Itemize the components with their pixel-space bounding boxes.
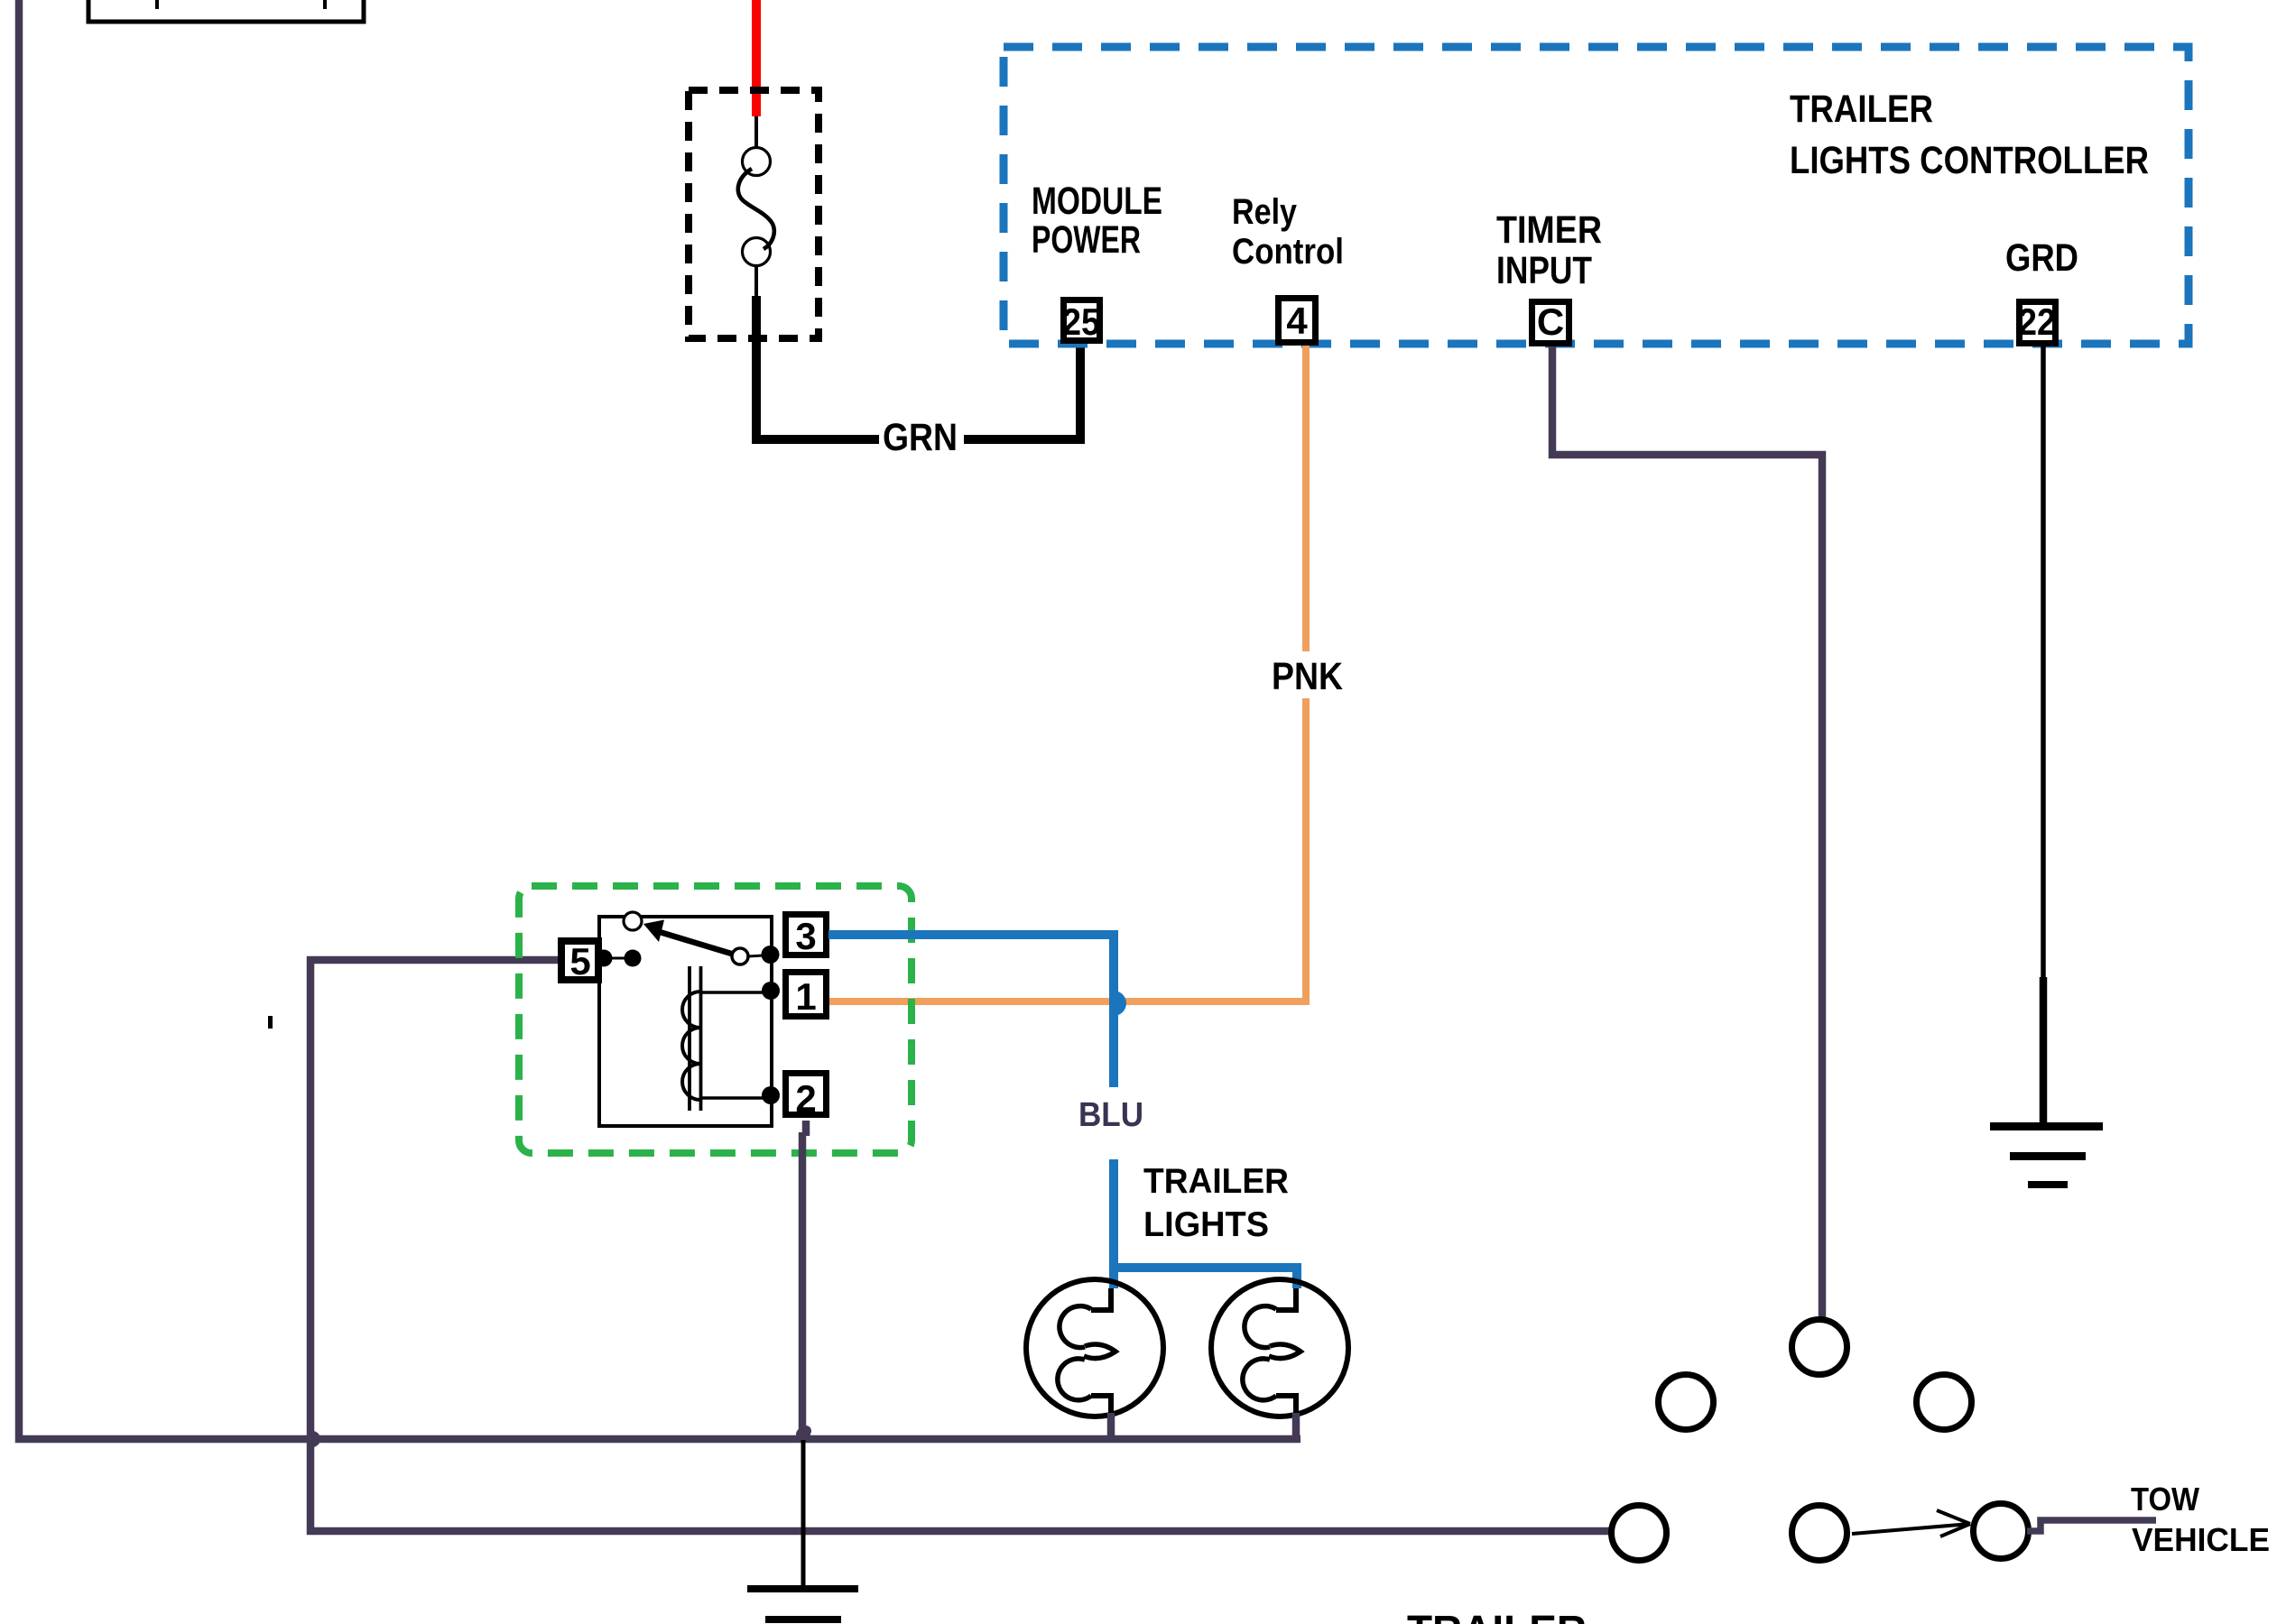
wire: purple from relay pin 5 left, down and along bottom to trailer connector pin xyxy=(310,960,1612,1531)
controller pin 25 xyxy=(1062,300,1100,344)
svg-text:1: 1 xyxy=(795,975,816,1018)
svg-text:LIGHTS: LIGHTS xyxy=(1143,1205,1269,1244)
svg-text:Control: Control xyxy=(1232,232,1344,272)
wire: purple to tow vehicle xyxy=(2027,1520,2156,1531)
svg-text:5: 5 xyxy=(569,940,590,983)
fuse box (black dashed) xyxy=(689,90,819,338)
wire: BLU blue branch to bulb 2 xyxy=(1114,1268,1297,1288)
svg-text:TIMER: TIMER xyxy=(1496,208,1602,252)
svg-text:C: C xyxy=(1537,300,1564,343)
junction: pin 2 wire to ground bus dot xyxy=(796,1426,811,1442)
ground symbol left (cut off at page bottom) xyxy=(747,1585,858,1623)
battery box (top-left, cut off at page top) xyxy=(88,0,364,22)
wire: purple from relay pin 2 down to ground node xyxy=(802,1121,806,1439)
relay inner case xyxy=(599,917,772,1126)
svg-text:TRAILER: TRAILER xyxy=(1143,1162,1289,1201)
svg-text:4: 4 xyxy=(1286,300,1308,342)
svg-text:22: 22 xyxy=(2018,300,2056,343)
trailer connector pins (6 circles) xyxy=(1612,1320,2029,1561)
wire: purple stub bulb 2 to ground bus xyxy=(1292,1413,1300,1443)
svg-text:POWER: POWER xyxy=(1032,218,1141,262)
trailer lights controller box (blue dashed) xyxy=(1004,47,2189,344)
svg-text:TOW: TOW xyxy=(2131,1481,2199,1518)
stray apostrophe mark xyxy=(268,1016,273,1029)
svg-text:Rely: Rely xyxy=(1232,192,1298,232)
label PNK xyxy=(1263,651,1350,698)
relay pin 2 xyxy=(786,1074,827,1121)
controller pin 22 xyxy=(2018,300,2056,344)
arrow: connector mating direction xyxy=(1852,1510,1970,1536)
fuse element (circuit breaker symbol) xyxy=(738,116,774,299)
relay box (green dashed) xyxy=(519,886,912,1153)
svg-text:TRAILER: TRAILER xyxy=(1790,88,1933,131)
label MODULE POWER xyxy=(1032,180,1162,262)
svg-text:GRN: GRN xyxy=(883,416,958,459)
wire: BLU blue from relay pin 3 right and down xyxy=(828,935,1114,1087)
wire: purple timer input from controller pin C to trailer connector pin xyxy=(1552,346,1822,1321)
label GRN xyxy=(879,416,964,459)
wire: black down to left ground xyxy=(801,1440,806,1588)
svg-text:LIGHTS CONTROLLER: LIGHTS CONTROLLER xyxy=(1790,139,2149,182)
svg-text:INPUT: INPUT xyxy=(1496,249,1592,292)
controller pin 4 xyxy=(1279,299,1316,343)
wire: black ground from controller pin 22 xyxy=(2041,346,2046,979)
wire: purple stub bulb 1 to ground bus xyxy=(1107,1413,1115,1443)
junction: blue over orange crossing dot xyxy=(1114,991,1126,1016)
node: relay coil to pin 2 xyxy=(762,1086,780,1104)
relay coil xyxy=(682,966,771,1111)
node: relay coil to pin 1 xyxy=(762,982,780,1000)
wire: red battery feed to fuse xyxy=(752,0,761,116)
label TIMER INPUT xyxy=(1496,208,1602,292)
relay pin 5 xyxy=(561,940,598,983)
junction: purple bus crossing dot xyxy=(312,1431,320,1447)
svg-text:2: 2 xyxy=(795,1077,816,1120)
wire: purple ground-bus from page top-left down and right to trailer light bulbs xyxy=(19,0,1300,1439)
svg-text:VEHICLE: VEHICLE xyxy=(2132,1521,2270,1558)
label TRAILER LIGHTS xyxy=(1143,1162,1289,1244)
svg-text:PNK: PNK xyxy=(1272,655,1343,698)
svg-text:MODULE: MODULE xyxy=(1032,180,1162,223)
controller pin C xyxy=(1532,300,1569,344)
relay pin 3 xyxy=(786,915,827,958)
svg-text:BLU: BLU xyxy=(1078,1096,1143,1134)
ground symbol right xyxy=(1990,1122,2103,1188)
bulb 2 (trailer light lamp) xyxy=(1211,1279,1348,1418)
wire: PNK orange horizontal to relay pin 1 xyxy=(828,998,1310,1005)
wire: BLU blue down to bulb 1 xyxy=(1109,1159,1118,1288)
svg-text:25: 25 xyxy=(1062,300,1100,343)
relay pin 1 xyxy=(786,973,827,1019)
label TRAILER LIGHTS CONTROLLER xyxy=(1790,88,2149,182)
svg-text:TRAILER: TRAILER xyxy=(1407,1608,1587,1624)
label TOW VEHICLE xyxy=(2131,1481,2270,1558)
bulb 1 (trailer light lamp) xyxy=(1026,1279,1163,1418)
svg-text:3: 3 xyxy=(795,915,816,957)
wire: PNK orange vertical from controller pin 4 xyxy=(1302,346,1310,1001)
wire: GRN black from fuse to controller pin 25 xyxy=(756,296,1080,439)
svg-text:GRD: GRD xyxy=(2005,236,2078,280)
relay switch (armature with arrow to NC pivot) xyxy=(596,912,780,967)
label Rely Control xyxy=(1232,192,1344,272)
